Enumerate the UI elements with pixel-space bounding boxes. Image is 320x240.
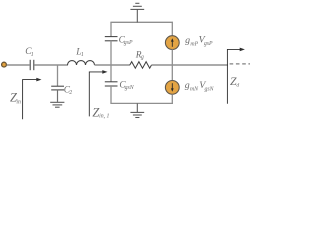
Zin arrow: [23, 80, 38, 120]
top rail: [110, 21, 173, 23]
top ground stem: [136, 9, 138, 22]
gate branch vertical middle: [110, 41, 112, 82]
svg-text:gsP: gsP: [204, 41, 213, 47]
current source gmN: [165, 81, 179, 95]
gate branch vertical lower: [110, 86, 112, 103]
svg-text:in: in: [16, 99, 21, 105]
wire input to C1: [7, 64, 30, 66]
wire C2 branch: [57, 65, 59, 86]
capacitor C2: [51, 86, 64, 90]
svg-text:gsN: gsN: [205, 86, 215, 92]
inductor L1: [68, 61, 95, 65]
capacitor C1: [30, 60, 34, 70]
dashed continuation: [230, 63, 250, 65]
svg-text:in, 1: in, 1: [99, 114, 109, 120]
resistor Rg: [130, 62, 152, 69]
ground below C2: [50, 102, 64, 107]
svg-text:g: g: [141, 55, 144, 61]
gm branch vertical lower: [171, 94, 173, 103]
svg-text:g: g: [185, 80, 190, 91]
wire C1 to L1: [35, 64, 69, 66]
svg-text:gsN: gsN: [125, 85, 135, 91]
svg-text:mN: mN: [190, 87, 199, 93]
svg-text:2: 2: [69, 90, 72, 96]
capacitor CgsN: [105, 82, 118, 86]
gm branch vertical upper: [171, 22, 173, 36]
svg-text:mP: mP: [190, 41, 198, 47]
Zin,1 arrow: [89, 72, 103, 117]
Zd arrow: [227, 49, 240, 103]
bottom rail: [110, 102, 173, 104]
gmN arrow (down): [171, 83, 173, 89]
current source gmP: [165, 36, 179, 50]
wire L1 to Rg: [95, 64, 131, 66]
gm branch vertical middle: [171, 49, 173, 80]
gmP arrow (up): [171, 41, 173, 47]
svg-text:1: 1: [31, 52, 34, 58]
input terminal dot: [2, 62, 7, 67]
bottom ground stem: [136, 103, 138, 112]
wire C2 to ground: [57, 90, 59, 102]
svg-text:1: 1: [81, 52, 84, 58]
top ground (inverted): [130, 3, 144, 9]
svg-text:gsP: gsP: [124, 40, 133, 46]
wire Rg to output: [152, 64, 229, 66]
svg-text:g: g: [185, 35, 190, 46]
bottom ground: [130, 112, 144, 117]
svg-text:d: d: [236, 82, 239, 88]
gate branch vertical upper: [110, 22, 112, 36]
capacitor CgsP: [105, 37, 118, 41]
